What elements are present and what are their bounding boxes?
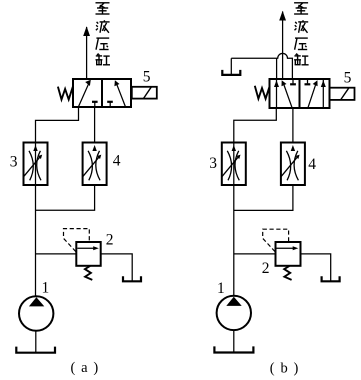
svg-text:3: 3 xyxy=(10,154,18,171)
svg-text:1: 1 xyxy=(217,280,225,297)
svg-text:4: 4 xyxy=(308,156,316,173)
svg-text:3: 3 xyxy=(209,155,217,172)
svg-text:5: 5 xyxy=(344,70,352,87)
svg-text:2: 2 xyxy=(262,260,270,277)
svg-text:5: 5 xyxy=(143,68,151,85)
svg-text:2: 2 xyxy=(106,232,114,249)
svg-text:1: 1 xyxy=(42,279,50,296)
svg-text:( a ): ( a ) xyxy=(71,360,100,376)
svg-text:( b ): ( b ) xyxy=(270,360,300,376)
svg-text:4: 4 xyxy=(113,153,121,170)
